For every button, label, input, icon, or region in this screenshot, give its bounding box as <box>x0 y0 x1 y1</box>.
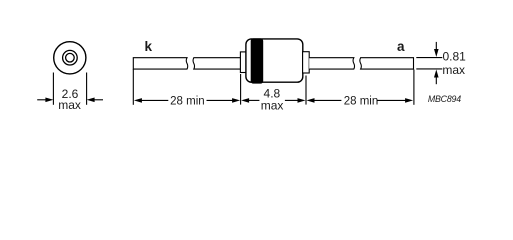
right glass stub <box>303 52 310 73</box>
2.6 dim right arrow <box>87 98 103 103</box>
28 min right dim left arrow <box>307 98 342 103</box>
svg-text:MBC894: MBC894 <box>428 94 461 104</box>
end view inner circle (lead) <box>66 53 75 62</box>
2.6 dim left arrow <box>37 98 53 103</box>
0.81 dim top extension line <box>416 57 442 59</box>
svg-text:k: k <box>145 39 153 54</box>
extension line below lead left end <box>132 69 134 105</box>
extension line left of 2.6 dim <box>52 73 54 105</box>
0.81 dim down arrow <box>434 42 439 57</box>
0.81 dim bottom extension line <box>416 68 442 70</box>
4.8 dim right arrow <box>285 98 306 103</box>
svg-text:a: a <box>397 39 405 54</box>
left glass stub <box>240 52 246 73</box>
svg-text:max: max <box>261 98 284 112</box>
28 min right dim right arrow <box>377 98 413 103</box>
0.81 dim up arrow <box>434 70 439 85</box>
extension line right of 2.6 dim <box>86 73 88 105</box>
28 min left dim right arrow <box>207 98 241 103</box>
svg-text:28 min: 28 min <box>344 96 379 108</box>
svg-text:max: max <box>58 98 81 112</box>
end view middle circle <box>63 50 78 65</box>
cathode band <box>251 38 264 83</box>
28 min left dim left arrow <box>134 98 168 103</box>
4.8 dim left arrow <box>241 98 259 103</box>
end view outer circle (2.6 max body diameter) <box>54 42 86 74</box>
extension line below lead right end <box>413 70 415 105</box>
extension line below body right <box>305 76 307 105</box>
svg-text:28 min: 28 min <box>170 96 205 108</box>
diode body <box>246 39 303 82</box>
anode lead segment 2 (after break) <box>360 58 414 69</box>
svg-text:0.81: 0.81 <box>443 50 467 64</box>
svg-text:max: max <box>442 63 465 77</box>
cathode lead segment 2 (after break) <box>193 58 240 69</box>
cathode lead segment 1 <box>133 58 187 69</box>
extension line below body left <box>240 74 242 105</box>
anode lead segment 1 <box>309 58 354 69</box>
